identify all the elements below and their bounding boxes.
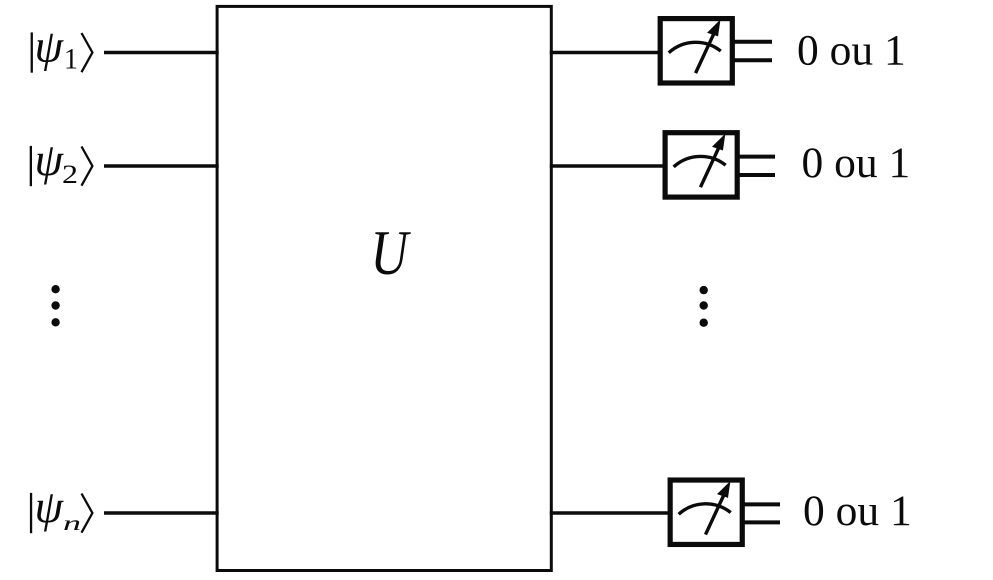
- unitary gate box U: [217, 6, 551, 570]
- vertical dots (right outputs): [700, 286, 708, 327]
- wire: |psi_2> to U: [104, 164, 219, 168]
- svg-text:ψ: ψ: [35, 134, 65, 185]
- svg-text:0 ou 1: 0 ou 1: [802, 139, 911, 187]
- wire: U output 2 to meter M2: [550, 164, 666, 168]
- input ket |psi_n>: [30, 481, 93, 535]
- svg-text:ψ: ψ: [35, 21, 65, 72]
- svg-text:1: 1: [64, 44, 78, 76]
- svg-text:ψ: ψ: [35, 481, 65, 532]
- svg-text:U: U: [371, 217, 412, 288]
- classical wire (double line) row 2: [739, 157, 775, 175]
- svg-text:n: n: [63, 511, 81, 535]
- classical wire (double line) row 1: [734, 42, 772, 61]
- input ket |psi_1>: [31, 21, 93, 76]
- input ket |psi_2>: [30, 134, 93, 189]
- wire: |psi_n> to U: [104, 511, 219, 515]
- wire: U output 1 to meter M1: [550, 51, 661, 55]
- svg-text:2: 2: [62, 160, 78, 189]
- meter Mn: [670, 480, 742, 544]
- classical wire (double line) row n: [744, 504, 780, 522]
- meter M2: [665, 133, 737, 197]
- wire: |psi_1> to U: [104, 51, 219, 55]
- meter M1: [660, 19, 732, 83]
- wire: U output n to meter Mn: [550, 511, 671, 515]
- svg-text:0 ou 1: 0 ou 1: [797, 26, 906, 74]
- svg-text:0 ou 1: 0 ou 1: [803, 487, 912, 535]
- vertical dots (left inputs): [51, 285, 59, 326]
